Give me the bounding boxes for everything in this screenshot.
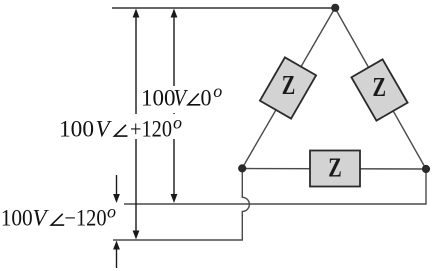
svg-text:Z: Z bbox=[373, 72, 387, 102]
label source 100V angle -120 bbox=[0, 201, 124, 230]
wire: node C drop to mid rail bbox=[113, 169, 426, 204]
svg-text:100: 100 bbox=[1, 206, 33, 231]
svg-text:0: 0 bbox=[201, 85, 212, 110]
wire: delta right side (node A to node C) bbox=[335, 8, 426, 169]
node B (bottom-left junction dot) bbox=[238, 164, 246, 172]
svg-text:100: 100 bbox=[141, 85, 176, 110]
svg-text:−120: −120 bbox=[65, 206, 107, 231]
svg-text:Z: Z bbox=[328, 153, 342, 183]
dimension arrow V3 (100V angle -120, outside arrows at x=116.5) bbox=[113, 175, 120, 268]
svg-text:o: o bbox=[173, 112, 182, 132]
dimension arrow V1 (100V angle 0, x=174 from top rail to mid wire) bbox=[171, 9, 178, 204]
wire: delta bottom side (node B to node C) bbox=[242, 168, 426, 171]
wire: top rail from source column to node A bbox=[112, 7, 335, 9]
svg-text:Z: Z bbox=[282, 70, 296, 100]
wire: node B drop with hop over mid rail bbox=[113, 169, 249, 241]
impedance Z3 (bottom box) bbox=[310, 151, 360, 187]
dimension arrow V2 (100V angle +120, x=136 from top rail to bottom wire) bbox=[133, 9, 140, 240]
node C (bottom-right junction dot) bbox=[422, 165, 430, 173]
svg-text:100: 100 bbox=[59, 117, 94, 142]
impedance Z2 (right branch box) bbox=[351, 59, 407, 120]
wire: delta left side (node A to node B) bbox=[242, 8, 335, 169]
node A (apex junction dot) bbox=[331, 4, 339, 12]
svg-text:+120: +120 bbox=[130, 117, 172, 142]
label source 100V angle +120 bbox=[58, 112, 186, 141]
svg-text:o: o bbox=[107, 201, 116, 221]
svg-text:o: o bbox=[213, 81, 222, 101]
impedance Z1 (left branch box) bbox=[260, 57, 316, 118]
label source 100V angle 0 bbox=[140, 81, 228, 113]
